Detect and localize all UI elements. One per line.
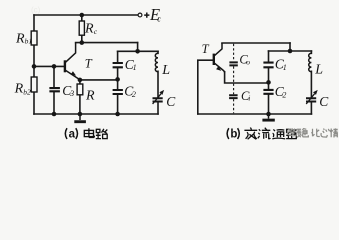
svg-text:C: C xyxy=(319,94,329,109)
比 xyxy=(311,129,320,137)
capacitor C3 xyxy=(49,88,60,91)
wire: emitter horizontal wire xyxy=(225,72,269,83)
transistor T (b) xyxy=(214,43,225,73)
svg-text:3: 3 xyxy=(69,89,74,98)
node: C3 tap on base wire xyxy=(52,64,57,69)
resistor Rb2 xyxy=(31,77,37,92)
capacitor C2 (b) xyxy=(263,90,273,94)
label +Ec xyxy=(144,13,149,18)
wire: drop from collector rail to tank rail xyxy=(137,43,139,52)
wire: emitter wire to C1C2 midpoint xyxy=(80,79,118,81)
wire: C1 branch leads xyxy=(117,51,119,114)
svg-text:i: i xyxy=(248,94,250,103)
绿 xyxy=(293,129,301,138)
node: base divider junction xyxy=(32,64,37,69)
emitter lead with arrow xyxy=(66,70,80,80)
hanzi 路 xyxy=(96,129,108,139)
svg-text:1: 1 xyxy=(133,63,137,72)
wire: bottom rail xyxy=(198,113,312,115)
watermark logo circle xyxy=(287,129,294,136)
svg-text:b1: b1 xyxy=(25,37,32,46)
node: emitter to C1-C2 midpoint (b) xyxy=(266,80,271,85)
transistor T (a) xyxy=(65,43,80,81)
resistor Rb1 xyxy=(31,31,37,45)
capacitor C2 (a) xyxy=(113,90,123,94)
svg-text:c: c xyxy=(157,14,161,23)
svg-text:R: R xyxy=(14,82,24,97)
wire: collector top rail xyxy=(222,42,290,44)
emitter lead with arrow xyxy=(215,63,225,72)
dashed internal-capacitance branch xyxy=(233,44,235,114)
hanzi 交 xyxy=(244,128,257,140)
svg-text:2: 2 xyxy=(282,90,286,99)
wire: bottom rail xyxy=(34,113,158,115)
caption (b) 交流通路 xyxy=(227,128,296,141)
svg-text:1: 1 xyxy=(283,63,287,72)
wire: Rc leads xyxy=(81,15,83,43)
node: tank rail junction xyxy=(135,49,140,54)
wire: L-C branch leads (b) xyxy=(310,51,312,114)
node: C2 bottom on ground rail xyxy=(115,112,120,117)
svg-text:T: T xyxy=(202,42,210,56)
collector lead xyxy=(215,43,223,56)
hanzi 通 xyxy=(272,129,285,139)
svg-text:R: R xyxy=(84,22,94,37)
base bar xyxy=(64,60,66,72)
svg-text:L: L xyxy=(161,63,170,78)
情 xyxy=(330,128,338,137)
wire: tank top rail xyxy=(269,50,312,52)
node: emitter node xyxy=(78,78,83,83)
wire: tank top rail xyxy=(118,50,158,52)
hanzi 电 xyxy=(84,128,94,137)
svg-text:o: o xyxy=(246,57,250,66)
capacitor Ci xyxy=(229,95,238,98)
svg-text:L: L xyxy=(314,63,323,78)
hanzi 流 xyxy=(258,128,271,139)
svg-text:C: C xyxy=(166,94,176,109)
wire: L-C branch leads xyxy=(157,51,159,114)
ground (b) xyxy=(268,114,270,119)
capacitor C1 (a) xyxy=(113,63,123,67)
node: Rc top on supply rail xyxy=(80,13,85,18)
node: tank rail junction (b) xyxy=(288,49,293,54)
wire: R branch leads xyxy=(79,80,81,114)
inductor L (b) xyxy=(309,53,312,71)
wire: left branch vertical xyxy=(33,15,35,114)
svg-text:(c): (c) xyxy=(31,6,41,15)
svg-text:b2: b2 xyxy=(23,87,31,96)
caption (a) 电路 xyxy=(65,128,107,140)
supply terminal circle xyxy=(138,13,142,17)
svg-text:a: a xyxy=(69,129,76,141)
wire: drop to tank rail xyxy=(289,43,291,51)
色 xyxy=(302,128,308,137)
wire: base wire xyxy=(34,65,64,67)
resistor Rc xyxy=(79,21,84,35)
wire: C3 branch leads xyxy=(53,66,55,114)
variable capacitor C (a) xyxy=(153,98,163,101)
variable capacitor C (b) xyxy=(306,98,316,101)
node: C1-C2 midpoint xyxy=(115,77,120,82)
svg-text:T: T xyxy=(85,57,93,71)
ground (a) xyxy=(79,114,81,120)
svg-text:b: b xyxy=(230,129,237,141)
collector lead xyxy=(66,43,76,63)
wire: base wire and left vertical xyxy=(198,60,213,114)
watermark text 绿色比心情 xyxy=(293,128,338,137)
hanzi 路 (second, partly covered) xyxy=(286,129,296,139)
心 xyxy=(321,129,329,138)
node: collector junction with Rc xyxy=(80,40,85,45)
resistor R (emitter) xyxy=(77,84,83,95)
capacitor Co xyxy=(229,62,237,65)
wire: top supply rail xyxy=(34,14,138,16)
wire: C1 branch leads (b) xyxy=(268,51,270,114)
svg-text:2: 2 xyxy=(132,90,136,99)
inductor L (a) xyxy=(155,53,158,71)
capacitor C1 (b) xyxy=(263,63,273,68)
node: R bottom on ground rail xyxy=(78,112,83,117)
svg-text:R: R xyxy=(15,32,25,47)
node: C2 bottom ground node (b) xyxy=(266,112,271,117)
node: C3 bottom on ground rail xyxy=(52,112,57,117)
base bar xyxy=(213,54,215,65)
svg-text:R: R xyxy=(85,89,95,104)
wire: collector rail xyxy=(76,42,138,44)
